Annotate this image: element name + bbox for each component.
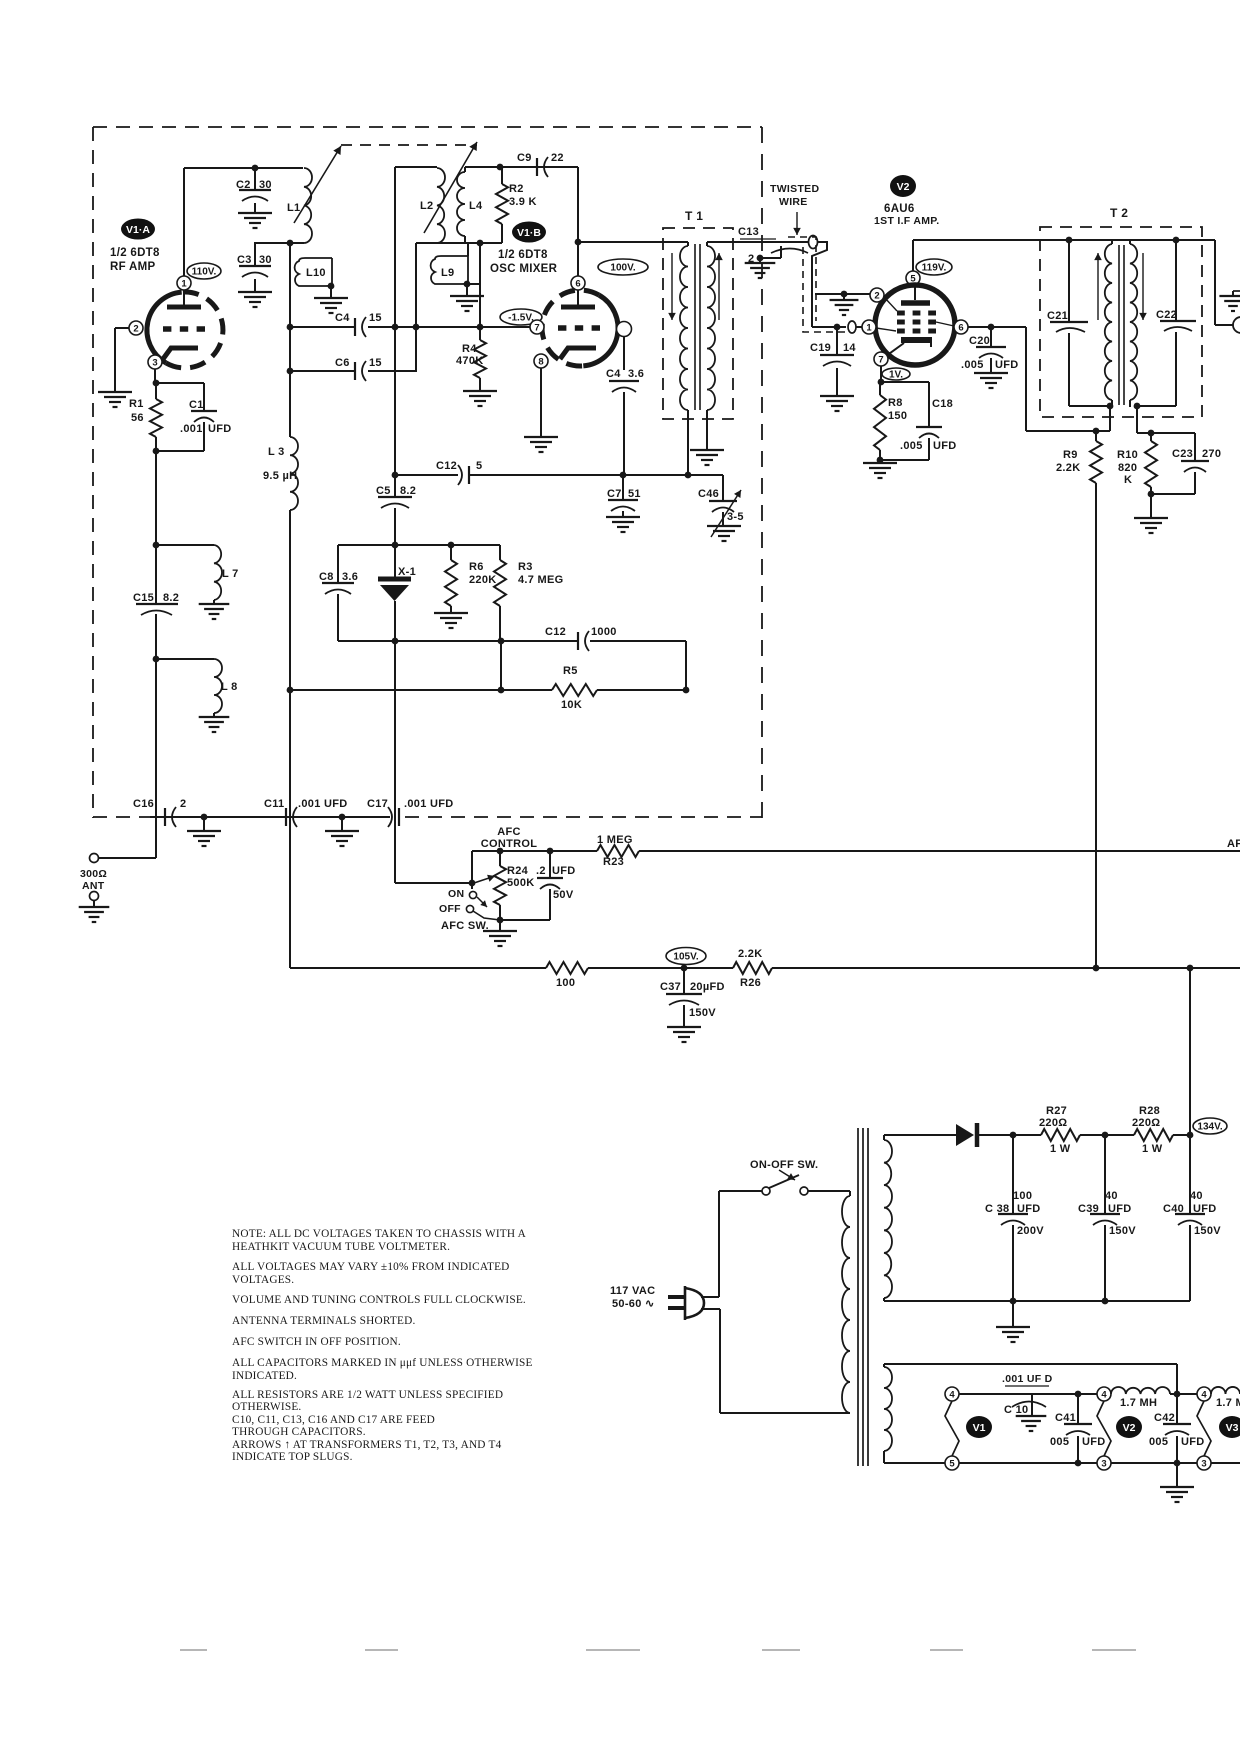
svg-text:ALL CAPACITORS MARKED IN μμf U: ALL CAPACITORS MARKED IN μμf UNLESS OTHE… <box>232 1357 533 1369</box>
node pin2 ground <box>841 291 848 298</box>
svg-text:30: 30 <box>259 254 272 266</box>
svg-text:4: 4 <box>1101 1389 1107 1400</box>
pin 7 V1B <box>530 320 544 334</box>
ground pin2 V1A <box>98 391 132 393</box>
wire R3 to R5 <box>500 641 502 690</box>
ground PSU <box>1012 1301 1014 1327</box>
node R6 top <box>448 542 455 549</box>
svg-text:C42: C42 <box>1154 1412 1175 1424</box>
V1B cathode <box>560 348 596 359</box>
pin 4 V3 heater <box>1197 1387 1211 1401</box>
svg-text:2: 2 <box>874 290 879 301</box>
T2 core <box>1118 245 1120 405</box>
capacitor C7 51 <box>622 475 624 499</box>
svg-text:.001 UF D: .001 UF D <box>1002 1373 1053 1385</box>
svg-text:7: 7 <box>534 322 539 333</box>
pin 5 V2 <box>906 271 920 285</box>
capacitor C4 15 <box>290 326 354 328</box>
tube V2 heater <box>1097 1401 1111 1456</box>
svg-text:300Ω: 300Ω <box>80 868 107 880</box>
T1 down arrow <box>671 253 673 320</box>
node T1 primary return <box>685 472 692 479</box>
wire V2 plate riser <box>912 240 914 271</box>
label V3 heater <box>1219 1416 1240 1438</box>
svg-text:ANTENNA TERMINALS SHORTED.: ANTENNA TERMINALS SHORTED. <box>232 1315 416 1327</box>
resistor R2 3.9K <box>497 164 504 171</box>
svg-text:14: 14 <box>843 342 856 354</box>
svg-text:OSC MIXER: OSC MIXER <box>490 263 558 275</box>
V1A cathode <box>163 348 198 359</box>
svg-text:C46: C46 <box>698 488 719 500</box>
svg-text:T 1: T 1 <box>685 209 703 223</box>
svg-text:C5: C5 <box>376 485 391 497</box>
node C37 <box>681 965 688 972</box>
node C38 top <box>1010 1132 1017 1139</box>
tube V1A envelope <box>147 292 182 363</box>
node T2 top right <box>1173 237 1180 244</box>
capacitor C2 30 <box>254 168 256 190</box>
wire primary loop <box>718 1191 720 1297</box>
power transformer core <box>857 1128 859 1466</box>
resistor R10 820K <box>1145 441 1157 487</box>
svg-text:5: 5 <box>476 460 482 472</box>
svg-text:R28: R28 <box>1139 1105 1160 1117</box>
label V2 <box>890 175 916 197</box>
svg-text:L4: L4 <box>469 200 483 212</box>
node C16 ground <box>201 814 208 821</box>
power transformer primary <box>849 1191 851 1196</box>
switch arm arrow <box>477 897 487 907</box>
svg-text:THROUGH CAPACITORS.: THROUGH CAPACITORS. <box>232 1426 366 1438</box>
tube V3 heater <box>1197 1401 1211 1456</box>
svg-text:2.2K: 2.2K <box>738 948 762 960</box>
voltage 119V <box>916 259 952 275</box>
ground C3 <box>238 291 272 293</box>
svg-text:9.5 µH: 9.5 µH <box>263 470 297 482</box>
svg-text:1 W: 1 W <box>1142 1143 1163 1155</box>
wire 134V riser <box>1189 968 1191 1135</box>
svg-text:OTHERWISE.: OTHERWISE. <box>232 1401 301 1413</box>
node C19 top <box>834 324 841 331</box>
svg-text:117 VAC: 117 VAC <box>610 1285 655 1297</box>
svg-text:4: 4 <box>949 1389 955 1400</box>
svg-text:UFD: UFD <box>995 359 1019 371</box>
resistor 100 <box>546 962 588 974</box>
svg-text:100: 100 <box>556 977 575 989</box>
ground pin2 V2 <box>830 299 859 301</box>
svg-text:C11: C11 <box>264 798 284 810</box>
wire L1 bottom <box>254 242 304 244</box>
svg-text:V1·A: V1·A <box>126 224 150 236</box>
svg-text:C20: C20 <box>969 335 990 347</box>
pin 5 V1 heater <box>945 1456 959 1470</box>
resistor R26 2.2K <box>733 962 772 974</box>
arrow twisted wire <box>796 212 798 235</box>
T2 up arrow <box>1097 253 1099 320</box>
svg-text:UFD: UFD <box>552 865 576 877</box>
svg-text:134V.: 134V. <box>1197 1122 1222 1133</box>
wire osc grid vertical <box>479 243 481 340</box>
wire plate tap vertical <box>289 243 291 371</box>
wire twisted pair <box>812 242 827 327</box>
voltage 1V <box>882 368 910 380</box>
svg-text:OFF: OFF <box>439 903 461 915</box>
node 134V <box>1187 1132 1194 1139</box>
svg-text:C9: C9 <box>517 152 532 164</box>
svg-text:V2: V2 <box>1123 1422 1136 1434</box>
ground R8 <box>879 460 881 463</box>
voltage 134V <box>1193 1118 1227 1134</box>
node T2 primary bottom <box>1107 403 1114 410</box>
svg-text:T 2: T 2 <box>1110 206 1128 220</box>
svg-text:1: 1 <box>866 322 872 333</box>
wire C9 to pin6 riser <box>549 166 578 168</box>
wire R9 to 105V line <box>1095 483 1097 968</box>
tuning arrow L2 <box>424 142 477 233</box>
svg-text:150V: 150V <box>689 1007 716 1019</box>
ground L10 <box>314 297 348 299</box>
node osc grid <box>477 240 484 247</box>
svg-text:3: 3 <box>1201 1458 1206 1469</box>
svg-text:C23: C23 <box>1172 448 1193 460</box>
pin 1 V1A <box>177 276 191 290</box>
svg-text:22: 22 <box>551 152 564 164</box>
svg-text:C18: C18 <box>932 398 953 410</box>
svg-text:.001: .001 <box>180 423 203 435</box>
svg-text:1000: 1000 <box>591 626 617 638</box>
node L2 bottom <box>413 324 420 331</box>
svg-text:4.7 MEG: 4.7 MEG <box>518 574 564 586</box>
wire pin2 shield <box>815 293 870 295</box>
svg-text:150: 150 <box>888 410 907 422</box>
capacitor C8 3.6 <box>337 545 339 582</box>
svg-text:8: 8 <box>538 356 543 367</box>
svg-text:V1·B: V1·B <box>517 227 541 239</box>
svg-text:C7: C7 <box>607 488 622 500</box>
pin 2 V2 <box>870 288 884 302</box>
svg-text:105V.: 105V. <box>673 952 698 963</box>
wire L2 top leg <box>394 167 396 371</box>
capacitor C38 100UFD 200V <box>1012 1135 1014 1213</box>
svg-text:C6: C6 <box>335 357 350 369</box>
svg-text:1.7 MH: 1.7 MH <box>1120 1397 1157 1409</box>
svg-text:8.2: 8.2 <box>400 485 416 497</box>
capacitor C42 005 UFD <box>1176 1394 1178 1424</box>
svg-text:3.6: 3.6 <box>342 571 358 583</box>
svg-text:C 10: C 10 <box>1004 1404 1028 1416</box>
pin 3 V3 heater <box>1197 1456 1211 1470</box>
inductor L10 link coil <box>295 258 332 286</box>
node R8 bottom <box>877 457 884 464</box>
node R24 bottom <box>497 917 504 924</box>
node 134V riser <box>1187 965 1194 972</box>
capacitor C1 .001 UFD <box>156 382 204 384</box>
voltage 100V <box>598 259 648 275</box>
svg-text:.2: .2 <box>536 865 546 877</box>
label V2 heater <box>1116 1416 1142 1438</box>
node C11 ground <box>339 814 346 821</box>
svg-text:V2: V2 <box>897 181 910 193</box>
svg-text:AFC SW.: AFC SW. <box>441 920 489 932</box>
capacitor C22 <box>1175 240 1177 320</box>
svg-text:HEATHKIT VACUUM TUBE VOLTMETER: HEATHKIT VACUUM TUBE VOLTMETER. <box>232 1241 450 1253</box>
wire L3 to B+ line <box>289 510 291 690</box>
svg-text:CONTROL: CONTROL <box>481 838 537 850</box>
inductor L7 <box>156 544 214 546</box>
wire HV secondary to diode <box>884 1134 956 1136</box>
svg-text:470K: 470K <box>456 355 484 367</box>
capacitor C21 <box>1068 240 1070 321</box>
wire AFC top rail <box>472 850 597 852</box>
ground C7 <box>606 516 640 518</box>
ground R4 <box>463 390 497 392</box>
diode box bottom rail <box>338 640 578 642</box>
switch arm <box>769 1175 799 1188</box>
ground C19 <box>820 395 854 397</box>
svg-text:R10: R10 <box>1117 449 1138 461</box>
node R10 bottom <box>1148 491 1155 498</box>
svg-text:1/2 6DT8: 1/2 6DT8 <box>110 247 160 259</box>
svg-text:2.2K: 2.2K <box>1056 462 1080 474</box>
svg-text:1 W: 1 W <box>1050 1143 1071 1155</box>
wire 105V line <box>290 967 546 969</box>
svg-text:ALL VOLTAGES MAY VARY ±10% FRO: ALL VOLTAGES MAY VARY ±10% FROM INDICATE… <box>232 1261 510 1273</box>
svg-text:NOTE: ALL DC VOLTAGES TAKEN T: NOTE: ALL DC VOLTAGES TAKEN TO CHASSIS W… <box>232 1228 527 1240</box>
svg-text:INDICATE TOP SLUGS.: INDICATE TOP SLUGS. <box>232 1451 353 1463</box>
node R9 top <box>1093 428 1100 435</box>
pin 2 V1A <box>129 321 143 335</box>
svg-text:50-60 ∿: 50-60 ∿ <box>612 1298 655 1310</box>
wire switch left <box>719 1190 762 1192</box>
pin 7 V2 <box>874 352 888 366</box>
svg-text:50V: 50V <box>553 889 574 901</box>
PSU ground rail <box>884 1300 1190 1302</box>
svg-text:6: 6 <box>958 322 963 333</box>
svg-text:1 MEG: 1 MEG <box>597 834 633 846</box>
svg-text:C15: C15 <box>133 592 154 604</box>
svg-text:40: 40 <box>1190 1190 1203 1202</box>
svg-text:100: 100 <box>1013 1190 1032 1202</box>
node C5 top <box>392 472 399 479</box>
svg-text:V3: V3 <box>1226 1422 1239 1434</box>
svg-text:15: 15 <box>369 312 382 324</box>
svg-text:C8: C8 <box>319 571 334 583</box>
svg-text:L1: L1 <box>287 202 300 214</box>
node R5 left <box>287 687 294 694</box>
resistor R8 150 <box>879 382 881 395</box>
T2 primary winding <box>1105 244 1112 400</box>
node diode rail left <box>392 542 399 549</box>
svg-text:VOLUME AND TUNING CONTROLS FUL: VOLUME AND TUNING CONTROLS FULL CLOCKWIS… <box>232 1294 526 1306</box>
resistor R23 1 MEG <box>597 845 639 857</box>
svg-text:500K: 500K <box>507 877 535 889</box>
wire X-1 node to AFC <box>394 641 396 883</box>
node L10 bottom <box>328 283 335 290</box>
ground at page edge <box>1233 290 1240 292</box>
svg-text:TWISTED: TWISTED <box>770 183 819 195</box>
power transformer HV secondary <box>884 1140 892 1298</box>
pin 4 V1 heater <box>945 1387 959 1401</box>
wiper arrow R24 <box>474 876 495 883</box>
wire T1 primary bottom <box>687 410 689 475</box>
resistor R28 220 ohm 1W <box>1134 1129 1173 1141</box>
svg-text:150V: 150V <box>1194 1225 1221 1237</box>
V1B grid <box>558 325 566 331</box>
node C20 <box>988 324 995 331</box>
node X-1 bottom <box>392 638 399 645</box>
svg-text:C21: C21 <box>1047 310 1068 322</box>
svg-text:51: 51 <box>628 488 641 500</box>
svg-text:R1: R1 <box>129 398 144 410</box>
switch contact right <box>800 1187 808 1195</box>
wire switch right <box>808 1190 850 1192</box>
svg-text:C16: C16 <box>133 798 154 810</box>
svg-text:UFD: UFD <box>933 440 957 452</box>
voltage 105V <box>666 948 706 965</box>
V2 cathode <box>901 337 932 343</box>
wire V1B plate to T1 <box>578 241 688 243</box>
ground C20 <box>974 372 1008 374</box>
tube V2 envelope <box>875 285 955 365</box>
node T2 top left <box>1066 237 1073 244</box>
node R24 top <box>497 848 504 855</box>
svg-text:ON-OFF SW.: ON-OFF SW. <box>750 1159 818 1171</box>
inductor L9 link coil <box>431 256 468 284</box>
wire pin7 down <box>880 366 882 382</box>
svg-text:X-1: X-1 <box>398 566 416 578</box>
wire AFC line to edge <box>639 850 1240 852</box>
svg-text:.005: .005 <box>900 440 923 452</box>
node L1 tap <box>287 240 294 247</box>
ground C16 <box>187 830 221 832</box>
svg-text:ALL RESISTORS ARE 1/2 WATT UNL: ALL RESISTORS ARE 1/2 WATT UNLESS SPECIF… <box>232 1389 503 1401</box>
svg-text:AFC: AFC <box>497 826 521 838</box>
pin 3 V2 heater <box>1097 1456 1111 1470</box>
svg-text:L2: L2 <box>420 200 433 212</box>
node C41 bottom <box>1075 1460 1082 1467</box>
resistor R6 220K <box>450 545 452 560</box>
rail oscillator top <box>395 166 437 168</box>
svg-text:C10, C11, C13, C16 AND C17: C10, C11, C13, C16 AND C17 ARE FEED <box>232 1414 435 1426</box>
switch ON contact <box>469 891 476 898</box>
svg-text:UFD: UFD <box>1181 1436 1205 1448</box>
shield bottom solid segment <box>150 816 390 818</box>
pin 6 V2 <box>954 320 968 334</box>
tube V1 heater <box>945 1401 959 1456</box>
svg-text:3: 3 <box>152 357 157 368</box>
capacitor C39 40UFD 150V <box>1104 1135 1106 1213</box>
node R5 mid <box>498 687 505 694</box>
svg-text:56: 56 <box>131 412 144 424</box>
pin 6 V1B <box>571 276 585 290</box>
power transformer filament secondary <box>884 1367 892 1451</box>
wire pin6 to B+ rail <box>1025 327 1027 431</box>
node C39 top <box>1102 1132 1109 1139</box>
svg-text:C4: C4 <box>606 368 621 380</box>
node R3 bottom <box>498 638 505 645</box>
svg-text:R27: R27 <box>1046 1105 1067 1117</box>
ground C10 <box>1016 1415 1047 1417</box>
ground C46 <box>707 525 741 527</box>
svg-text:3-5: 3-5 <box>727 511 744 523</box>
V1A grid <box>163 326 171 332</box>
node R1 bottom <box>153 448 160 455</box>
svg-text:WIRE: WIRE <box>779 196 808 208</box>
svg-text:3.9 K: 3.9 K <box>509 196 537 208</box>
svg-text:1V.: 1V. <box>889 370 903 381</box>
node C6 left <box>287 368 294 375</box>
resistor R9 2.2K <box>1095 431 1097 441</box>
svg-text:L 3: L 3 <box>268 446 285 458</box>
wire pin6 out <box>968 326 1026 328</box>
node R4 top <box>477 324 484 331</box>
svg-text:R3: R3 <box>518 561 533 573</box>
V2 plate bar <box>901 300 930 306</box>
svg-text:L9: L9 <box>441 267 454 279</box>
svg-text:40: 40 <box>1105 1190 1118 1202</box>
node heater feed <box>1174 1391 1181 1398</box>
ground AFC <box>499 920 501 931</box>
V2 grid rows <box>897 311 905 316</box>
ground L9 <box>450 295 484 297</box>
svg-text:2: 2 <box>180 798 186 810</box>
rail C12-5 <box>395 474 458 476</box>
svg-text:AFC SWITCH IN OFF POSITION.: AFC SWITCH IN OFF POSITION. <box>232 1336 401 1348</box>
svg-text:C1: C1 <box>189 399 204 411</box>
node C4 left <box>287 324 294 331</box>
resistor R27 220 ohm 1W <box>1013 1134 1041 1136</box>
capacitor C41 005 UFD <box>1077 1394 1079 1424</box>
twisted wire shield dashes <box>788 237 816 321</box>
svg-text:L 7: L 7 <box>222 568 239 580</box>
ground C2 <box>238 212 272 214</box>
svg-text:L 8: L 8 <box>221 681 238 693</box>
wire antenna column <box>155 451 157 604</box>
node L7 tap <box>153 542 160 549</box>
V1B plate output circle <box>617 322 632 337</box>
svg-text:100V.: 100V. <box>610 263 635 274</box>
label V1-B <box>512 222 546 243</box>
capacitor C40 40UFD 150V <box>1189 1135 1191 1213</box>
svg-text:ON: ON <box>448 888 464 900</box>
wire plate output down <box>623 336 625 370</box>
tube V1B envelope <box>583 295 618 366</box>
svg-text:V1: V1 <box>973 1422 986 1434</box>
node L9 bottom <box>464 281 471 288</box>
pin 3 V1A <box>148 355 162 369</box>
ground R10 <box>1134 517 1168 519</box>
svg-text:INDICATED.: INDICATED. <box>232 1370 297 1382</box>
ground C11 <box>325 830 359 832</box>
capacitor .2 UFD 50V <box>549 851 551 877</box>
svg-text:2: 2 <box>133 323 138 334</box>
switch contact left <box>762 1187 770 1195</box>
svg-text:7: 7 <box>878 354 883 365</box>
tuning gang dashed link <box>341 144 477 146</box>
svg-text:UFD: UFD <box>1082 1436 1106 1448</box>
svg-text:R8: R8 <box>888 397 903 409</box>
svg-text:R5: R5 <box>563 665 578 677</box>
svg-text:6AU6: 6AU6 <box>884 203 915 215</box>
svg-text:UFD: UFD <box>208 423 232 435</box>
T1 secondary winding <box>707 246 715 410</box>
node wiper <box>469 880 476 887</box>
resistor R5 10K <box>290 689 552 691</box>
svg-text:C19: C19 <box>810 342 831 354</box>
capacitor C20 .005 UFD <box>990 327 992 346</box>
svg-text:C13: C13 <box>738 226 759 238</box>
next stage grid circle <box>1233 317 1240 333</box>
